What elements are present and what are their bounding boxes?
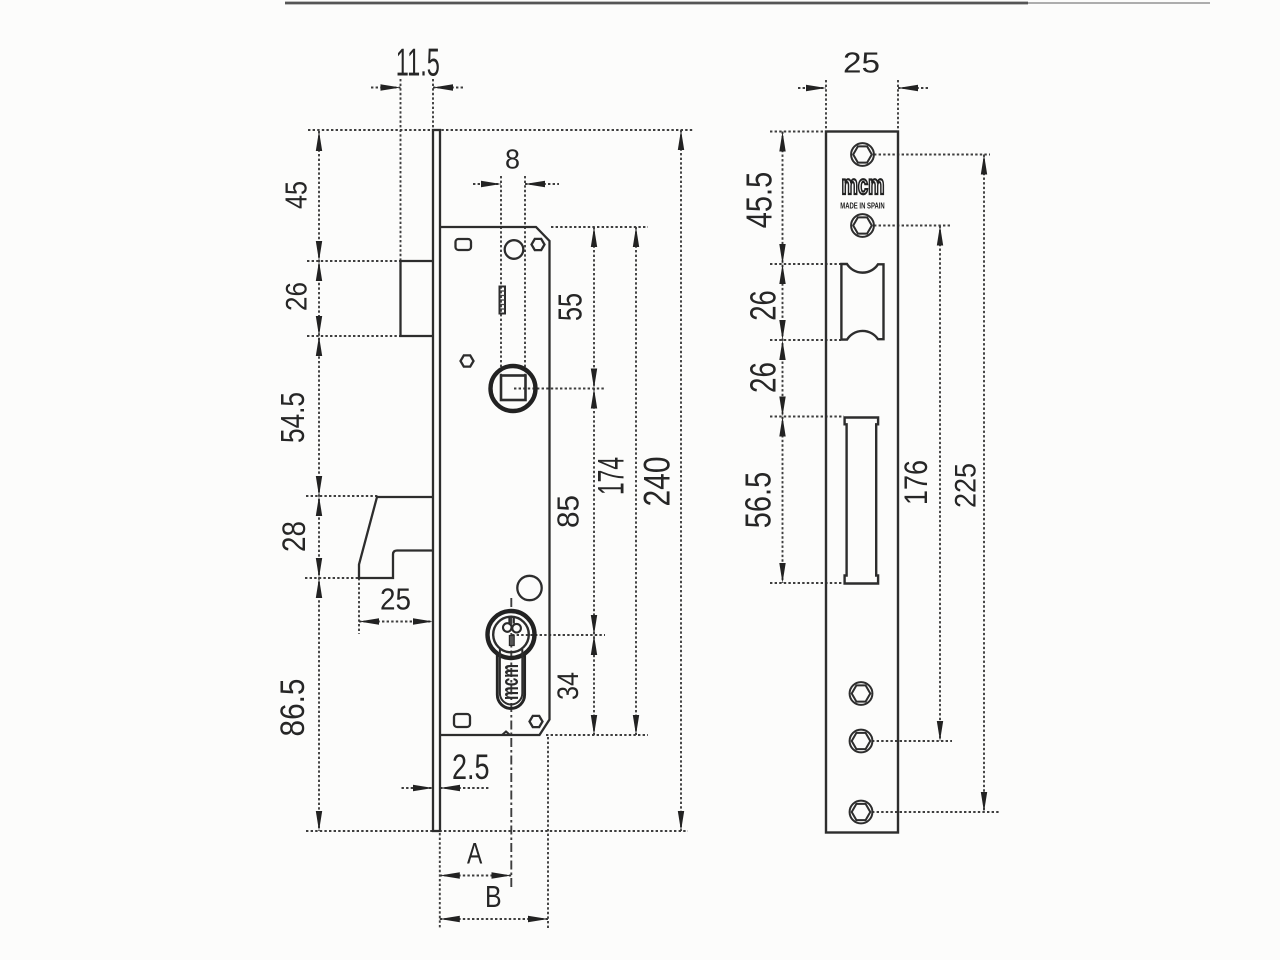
dimension and extension lines: [305, 79, 1000, 930]
svg-text:174: 174: [590, 457, 632, 495]
svg-text:45.5: 45.5: [738, 172, 779, 228]
svg-text:85: 85: [552, 495, 586, 528]
svg-text:26: 26: [280, 282, 313, 311]
svg-text:mcm: mcm: [842, 170, 885, 201]
hook bolt: [359, 497, 433, 578]
svg-text:176: 176: [899, 460, 935, 505]
euro cylinder outer: [488, 611, 535, 658]
svg-text:45: 45: [278, 181, 313, 209]
svg-text:225: 225: [949, 463, 983, 508]
latch cutout spool: [841, 264, 883, 340]
hex hole mid: [461, 355, 474, 366]
scan artifact top edge: [285, 2, 1028, 5]
svg-text:11.5: 11.5: [396, 40, 440, 84]
small circle hole: [517, 576, 541, 600]
svg-text:2.5: 2.5: [452, 748, 490, 787]
dimension labels: [273, 40, 983, 913]
keyway: [503, 618, 521, 633]
centerline cylinder: [510, 598, 512, 888]
svg-text:MADE IN SPAIN: MADE IN SPAIN: [840, 200, 884, 210]
arrowheads: [316, 84, 987, 922]
svg-text:26: 26: [743, 362, 783, 393]
latch bolt protruding: [401, 261, 434, 336]
hex hole top: [532, 239, 545, 250]
narrow slot: [500, 287, 506, 314]
svg-text:26: 26: [743, 290, 783, 321]
svg-text:28: 28: [277, 521, 312, 552]
svg-text:86.5: 86.5: [273, 679, 311, 737]
faceplate edge-on: [433, 130, 440, 831]
hex hole bottom: [530, 716, 543, 727]
svg-text:25: 25: [843, 46, 880, 79]
svg-text:34: 34: [551, 672, 585, 700]
break notch bottom line: [502, 732, 510, 736]
svg-text:mcm: mcm: [498, 664, 524, 700]
svg-text:A: A: [467, 836, 482, 870]
plate outline: [826, 132, 898, 833]
svg-text:8: 8: [505, 143, 520, 175]
svg-text:56.5: 56.5: [737, 472, 778, 528]
svg-text:240: 240: [638, 457, 679, 507]
svg-text:B: B: [485, 879, 502, 913]
svg-text:54.5: 54.5: [275, 392, 312, 443]
lock case outline: [440, 227, 550, 735]
screw holes: [850, 143, 874, 823]
screw slot top: [456, 239, 472, 250]
follower square 8mm: [501, 376, 526, 401]
screw slot bottom: [454, 714, 470, 727]
round hole: [505, 240, 524, 259]
hook cutout: [845, 418, 879, 584]
LEFT VIEW: lock body: [359, 130, 550, 831]
svg-text:55: 55: [552, 293, 589, 321]
RIGHT VIEW: faceplate front: [826, 132, 898, 833]
svg-text:25: 25: [380, 582, 411, 617]
follower: [491, 366, 536, 411]
